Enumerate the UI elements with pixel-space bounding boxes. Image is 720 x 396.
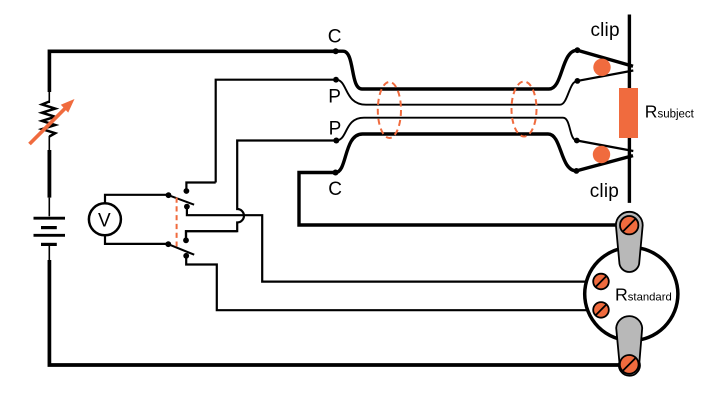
screw: sense terminal 2 [593, 302, 609, 318]
svg-text:C: C [328, 26, 342, 47]
switch SW1 lever [169, 195, 195, 205]
cable bundle marker 1 (orange dashed ellipse) [378, 82, 401, 138]
top clip upper jaw [577, 50, 633, 66]
node P1 [333, 77, 339, 83]
screw: current terminal top [620, 216, 638, 234]
svg-text:P: P [328, 87, 341, 108]
node SW2 throw A [183, 237, 189, 243]
resistor R_standard body (circle) [585, 247, 678, 340]
screw: current terminal bottom [620, 355, 639, 374]
wire: P1 sense wire from switch to node P1 [216, 80, 336, 183]
cable bundle marker 2 (orange dashed ellipse) [512, 82, 537, 137]
wire: P2 cable conductor (thin) [336, 118, 577, 141]
voltmeter V wire bottom [105, 234, 168, 244]
wire: battery bottom lead [48, 246, 50, 262]
R_standard current terminal lug top (gray) [616, 212, 643, 272]
wire: P1 cable conductor (thin) [336, 80, 577, 105]
R_standard current terminal lug bottom (gray) [616, 316, 642, 376]
node bottom clip P contact [574, 138, 580, 144]
screw: sense terminal 1 [593, 274, 609, 290]
wire: SW2 throw B to Rstandard sense 2 [186, 256, 597, 310]
rheostat arrow (orange) [30, 99, 75, 144]
R_subject lead bar [628, 15, 631, 203]
node C2 [333, 170, 339, 176]
bottom clip lower jaw [576, 156, 633, 171]
wire: C2 to Rstandard top current terminal [299, 173, 626, 226]
battery B1 plate long [34, 234, 66, 237]
battery B1 plate short bottom [41, 243, 57, 246]
node C1 [333, 48, 339, 54]
rheostat R1 zigzag [42, 102, 55, 137]
node SW1 throw A [184, 188, 190, 194]
battery B1 plate short [41, 226, 57, 229]
node SW1 throw B [184, 204, 190, 210]
wire: C1 cable conductor (thick, top) [336, 50, 577, 89]
wire: SW1 throw B to Rstandard sense 1 [187, 207, 597, 282]
wire: SW1 throw A to P1 riser [186, 183, 215, 192]
node top clip C contact [575, 47, 581, 53]
wire: battery loop top (rheostat to node C1) [49, 51, 336, 92]
bottom clip pivot (orange) [593, 146, 610, 163]
svg-text:clip: clip [590, 20, 619, 41]
svg-text:clip: clip [590, 181, 619, 202]
wire: P2 sense wire with hop over V-wire [186, 141, 336, 241]
switch gang link (orange dashed) [176, 198, 178, 247]
node bottom clip C contact [574, 168, 580, 174]
bottom clip upper jaw [577, 141, 634, 152]
svg-text:C: C [328, 179, 342, 200]
wire: C2 cable conductor (thick, bottom) [336, 134, 577, 173]
battery B1 plate long top [34, 217, 66, 220]
node SW2 pole [165, 241, 171, 247]
wire: rheostat to battery [48, 150, 52, 198]
voltmeter V [89, 203, 121, 235]
wire: battery loop bottom to Rstandard current terminal [49, 260, 626, 365]
node top clip P contact [575, 78, 581, 84]
wire: rheostat bottom lead [48, 136, 50, 152]
node SW1 pole [166, 192, 172, 198]
wire: battery top lead [48, 198, 50, 217]
resistor R_subject (orange body) [619, 88, 638, 138]
svg-text:V: V [98, 211, 111, 232]
wire: SW2 throw A to P2 riser [186, 231, 237, 240]
voltmeter V wire top [105, 195, 169, 204]
node P2 [333, 138, 339, 144]
node SW2 throw B [183, 253, 189, 259]
svg-text:P: P [329, 119, 342, 140]
top clip pivot (orange) [593, 59, 610, 76]
top clip lower jaw [577, 71, 633, 81]
wire: rheostat top lead [48, 91, 50, 103]
switch SW2 lever [168, 244, 194, 255]
